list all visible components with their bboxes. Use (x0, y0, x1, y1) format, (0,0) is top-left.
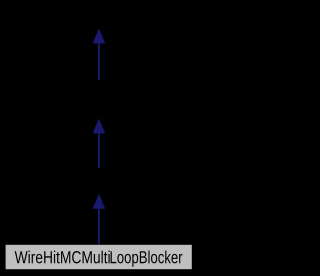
label text "WireHitMCMultiLoopBlocker" (as outlines) (15, 251, 183, 267)
class node box WireHitMCMultiLoopBlocker (5, 244, 192, 269)
inheritance arrow 2: shaft wire (98, 134, 100, 169)
inheritance arrow 2 (to middle base class): arrowhead (93, 119, 106, 134)
inheritance arrow 1 (to top base class): arrowhead (93, 29, 106, 44)
inheritance arrow 1: shaft wire (98, 44, 100, 81)
inheritance arrow 3 (to lower base class): arrowhead (93, 194, 106, 209)
inheritance arrow 3: shaft wire (98, 209, 100, 244)
